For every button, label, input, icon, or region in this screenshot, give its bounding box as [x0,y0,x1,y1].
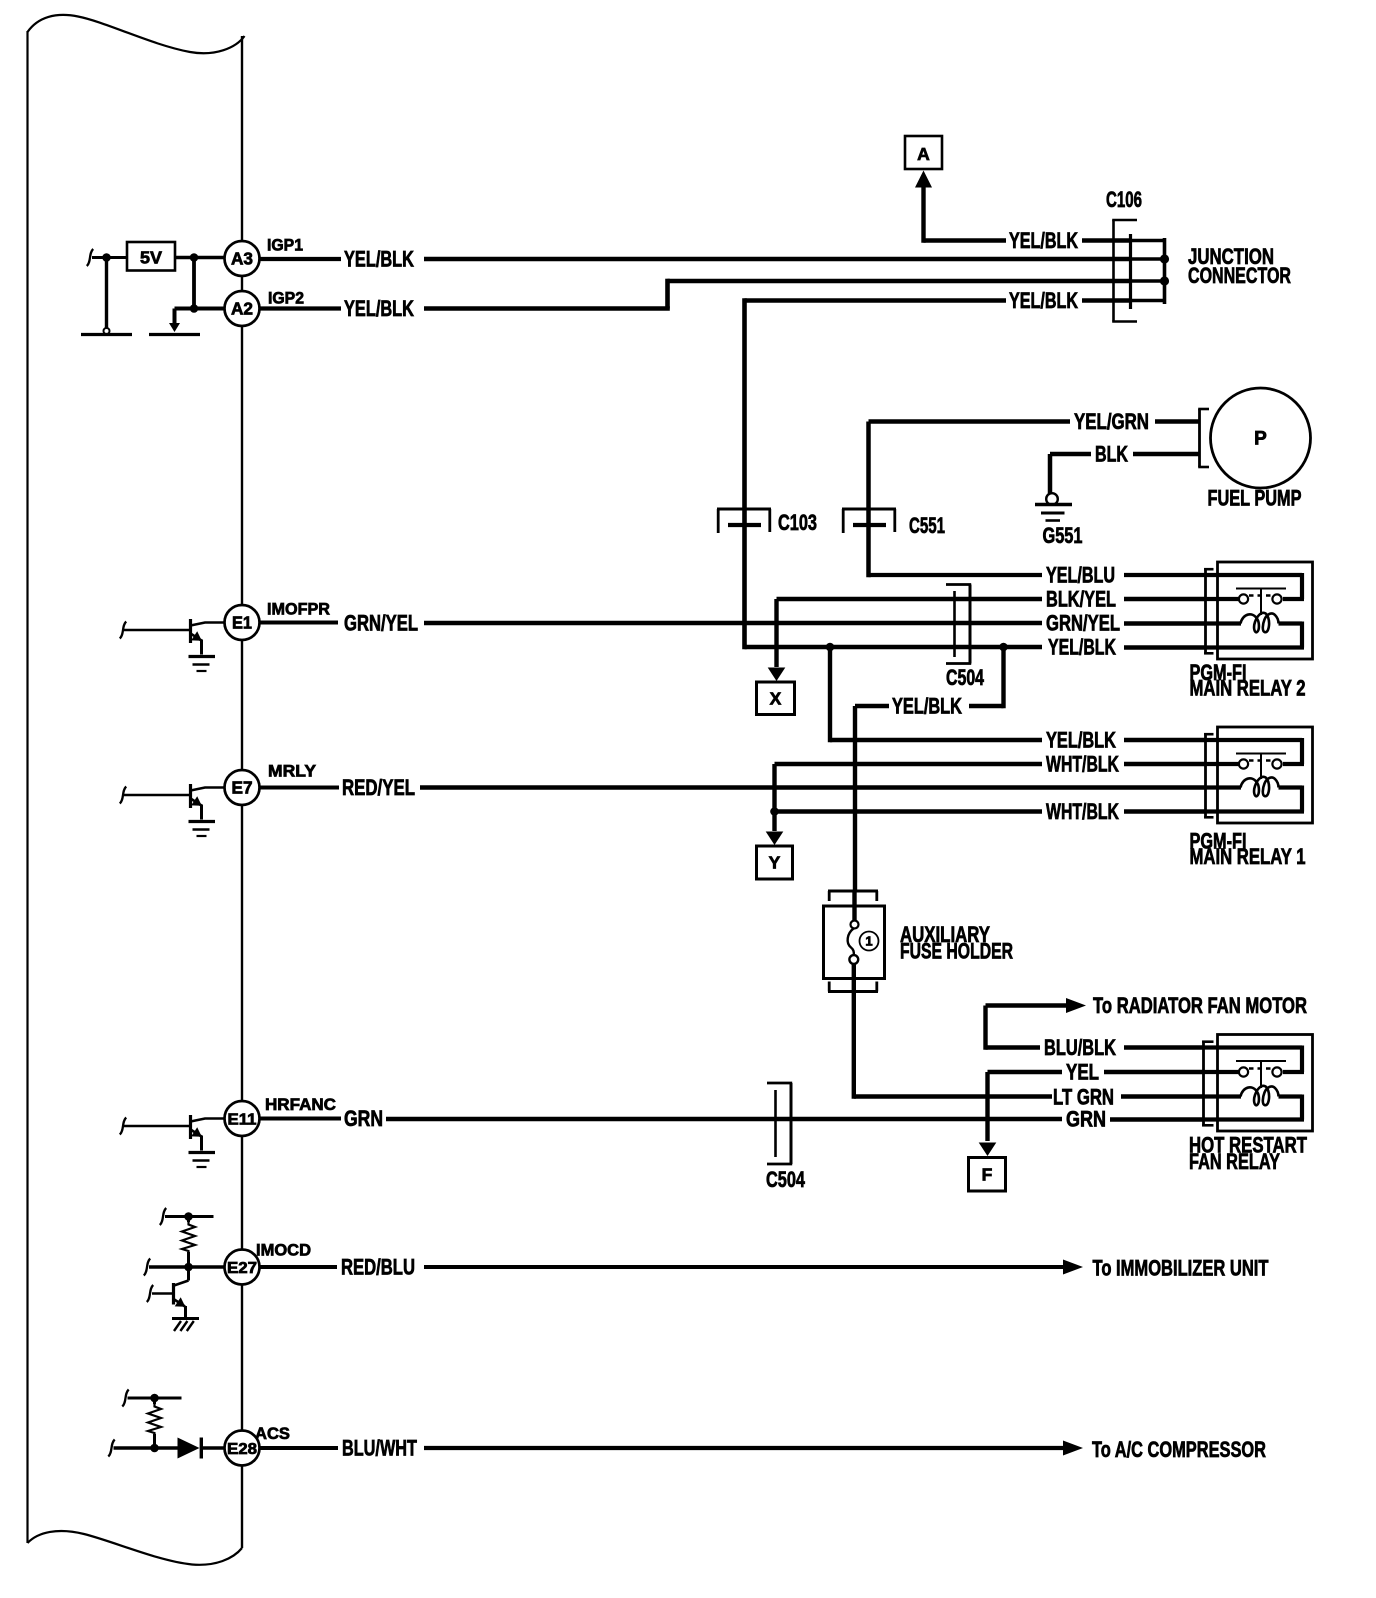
svg-text:IMOFPR: IMOFPR [267,600,330,619]
svg-text:C551: C551 [909,513,945,538]
svg-text:C504: C504 [946,665,985,690]
svg-text:GRN: GRN [1066,1107,1106,1132]
svg-text:YEL/BLK: YEL/BLK [344,296,414,321]
svg-text:A2: A2 [231,299,253,319]
svg-text:YEL/BLK: YEL/BLK [1009,288,1078,313]
svg-text:To A/C COMPRESSOR: To A/C COMPRESSOR [1092,1437,1266,1462]
svg-text:C504: C504 [766,1167,806,1192]
svg-text:C103: C103 [778,510,817,535]
svg-text:G551: G551 [1043,523,1083,548]
svg-text:WHT/BLK: WHT/BLK [1046,752,1119,777]
svg-text:HRFANC: HRFANC [265,1095,336,1114]
svg-text:YEL/BLU: YEL/BLU [1046,563,1115,588]
svg-text:E7: E7 [232,778,253,798]
svg-text:E28: E28 [227,1441,257,1458]
svg-text:YEL/BLK: YEL/BLK [1009,228,1078,253]
svg-text:YEL/BLK: YEL/BLK [344,247,414,272]
svg-text:Y: Y [769,853,781,873]
svg-text:RED/BLU: RED/BLU [341,1255,415,1280]
svg-text:X: X [770,689,782,709]
svg-text:WHT/BLK: WHT/BLK [1046,799,1119,824]
svg-text:E27: E27 [227,1260,257,1277]
svg-text:MRLY: MRLY [268,762,317,781]
svg-text:P: P [1254,429,1267,450]
svg-text:C106: C106 [1106,187,1142,212]
svg-text:GRN: GRN [344,1106,383,1131]
svg-text:GRN/YEL: GRN/YEL [1046,611,1120,636]
svg-text:BLK: BLK [1095,442,1128,467]
svg-text:YEL/BLK: YEL/BLK [1046,728,1116,753]
svg-text:To RADIATOR FAN MOTOR: To RADIATOR FAN MOTOR [1093,993,1307,1018]
svg-text:A: A [917,144,930,164]
svg-text:CONNECTOR: CONNECTOR [1188,263,1291,288]
svg-text:BLU/WHT: BLU/WHT [342,1436,417,1461]
svg-text:YEL/BLK: YEL/BLK [1048,635,1116,660]
svg-text:YEL/BLK: YEL/BLK [892,694,962,719]
svg-text:To IMMOBILIZER UNIT: To IMMOBILIZER UNIT [1093,1255,1269,1280]
svg-text:IMOCD: IMOCD [256,1241,311,1260]
svg-text:BLK/YEL: BLK/YEL [1046,587,1116,612]
svg-text:GRN/YEL: GRN/YEL [344,611,418,636]
svg-text:YEL: YEL [1066,1060,1099,1085]
svg-text:ACS: ACS [255,1424,290,1443]
svg-text:MAIN RELAY 1: MAIN RELAY 1 [1190,844,1306,869]
svg-text:A3: A3 [231,249,253,269]
svg-text:FUEL PUMP: FUEL PUMP [1208,486,1302,511]
svg-text:IGP2: IGP2 [268,289,304,308]
svg-text:E11: E11 [228,1112,257,1129]
svg-text:5V: 5V [140,248,162,268]
svg-text:F: F [982,1165,993,1185]
svg-text:YEL/GRN: YEL/GRN [1074,409,1149,434]
svg-text:1: 1 [865,934,872,949]
svg-text:MAIN RELAY 2: MAIN RELAY 2 [1190,676,1306,701]
svg-text:E1: E1 [232,613,252,633]
svg-text:RED/YEL: RED/YEL [342,775,415,800]
svg-text:BLU/BLK: BLU/BLK [1044,1035,1116,1060]
svg-text:FAN RELAY: FAN RELAY [1189,1149,1280,1174]
svg-text:IGP1: IGP1 [267,236,303,255]
svg-text:FUSE HOLDER: FUSE HOLDER [900,939,1013,964]
